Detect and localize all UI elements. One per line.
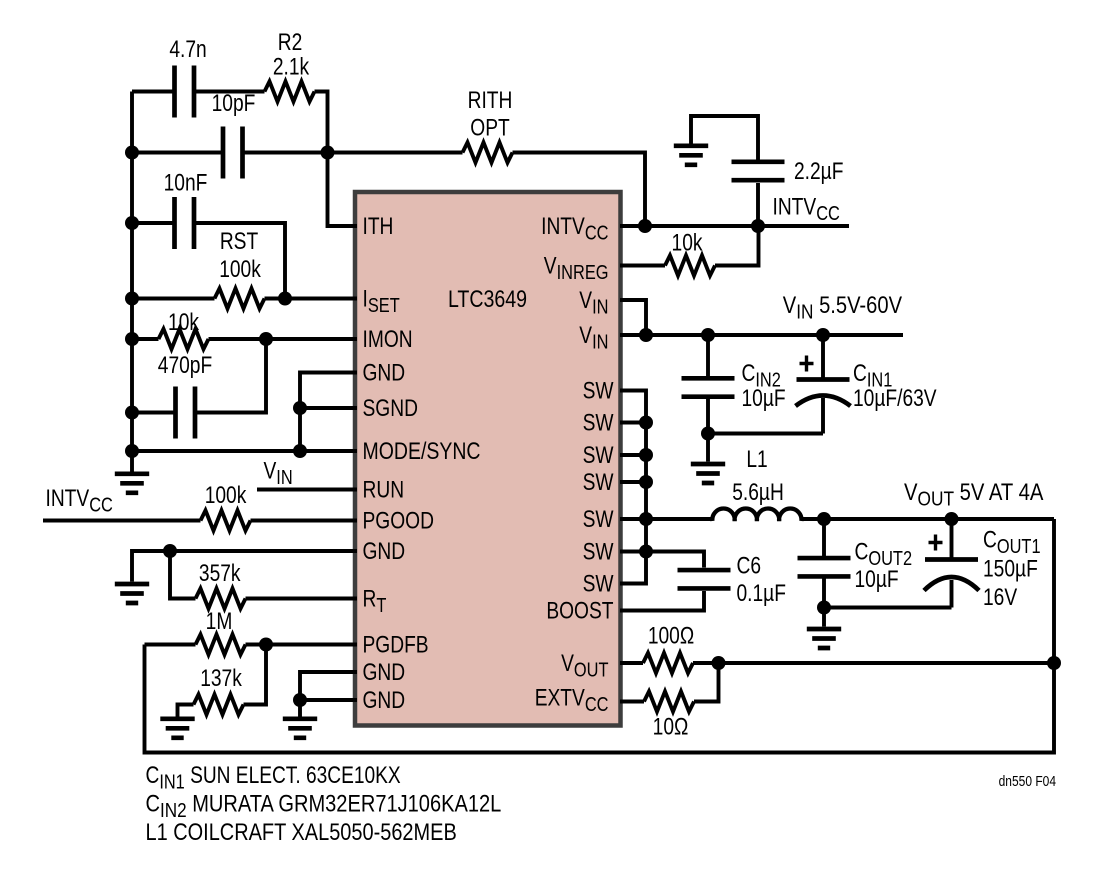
- wire SW2 stub: [620, 421, 646, 425]
- wire 100k to PGOOD pin: [251, 519, 358, 523]
- resistor 10k (VINREG): [665, 255, 715, 275]
- junction VOUT divider: [712, 656, 726, 670]
- plus sign CIN1: [800, 356, 814, 372]
- wire COUT2 to COUT1 bottom: [824, 606, 952, 610]
- junction bus IMON row: [125, 332, 139, 346]
- resistor 100k (PGOOD): [201, 510, 251, 530]
- wire SW5 stub: [620, 517, 646, 521]
- wire GND pin lower stub: [300, 700, 357, 717]
- wire 2.2uF bottom lead: [756, 183, 760, 226]
- svg-text:SW: SW: [583, 468, 614, 496]
- junction VIN/CIN1: [816, 328, 830, 342]
- wire RT branch vertical: [170, 551, 196, 599]
- svg-text:SW: SW: [583, 537, 614, 565]
- svg-text:2.2µF: 2.2µF: [794, 157, 843, 185]
- ground 2.2uF: [674, 146, 708, 165]
- junction SW4: [639, 475, 653, 489]
- svg-text:5.6µH: 5.6µH: [732, 478, 784, 506]
- junction bus ISET row: [125, 292, 139, 306]
- svg-text:VIN: VIN: [264, 456, 293, 488]
- svg-text:CIN1 SUN ELECT. 63CE10KX: CIN1 SUN ELECT. 63CE10KX: [146, 761, 402, 793]
- op-amp U1 LTC3649 regulator body: [355, 192, 621, 726]
- wire RST to ISET pin: [265, 297, 358, 301]
- wire 10k to IMON pin: [209, 337, 358, 341]
- capacitor 470pF: [176, 387, 196, 439]
- wire COUT2 gnd stem: [822, 608, 826, 627]
- junction ITH node: [321, 146, 335, 160]
- wire COUT1 top lead: [950, 519, 954, 558]
- wire 4.7n row left: [132, 90, 173, 94]
- resistor 1M: [196, 634, 246, 654]
- junction bus 10nF row: [125, 216, 139, 230]
- wire PGDFB node to 137k: [244, 645, 267, 705]
- svg-text:RITH: RITH: [468, 86, 513, 114]
- junction SW5: [639, 512, 653, 526]
- wire VINREG stub: [620, 264, 665, 268]
- wire VIN rail: [620, 333, 903, 337]
- svg-text:100k: 100k: [205, 481, 247, 509]
- wire SW4 stub: [620, 480, 646, 484]
- wire R2 down to 10pF node: [315, 92, 328, 153]
- capacitor 10pF: [223, 127, 243, 179]
- junction bus MODE row: [125, 444, 139, 458]
- svg-text:R2: R2: [278, 28, 303, 56]
- svg-text:SW: SW: [583, 441, 614, 469]
- junction MODE node: [293, 444, 307, 458]
- wire 10pF row left: [132, 151, 222, 155]
- wire 4.7n to R2: [196, 90, 265, 94]
- wire MODE node to GND pin: [300, 373, 357, 452]
- wire SW6 stub: [620, 550, 646, 554]
- svg-text:10µF: 10µF: [855, 565, 899, 593]
- junction bus 470pF row: [125, 406, 139, 420]
- svg-text:OPT: OPT: [470, 113, 509, 141]
- resistor 357k: [196, 588, 246, 608]
- svg-text:LTC3649: LTC3649: [448, 285, 527, 313]
- wire CIN1 top lead: [821, 335, 825, 378]
- wire 10k to INTVCC node: [715, 226, 759, 266]
- svg-text:SW: SW: [583, 505, 614, 533]
- svg-text:VIN 5.5V-60V: VIN 5.5V-60V: [783, 291, 903, 323]
- wire 10ohm to node: [694, 663, 719, 702]
- junction bus 10pF row: [125, 146, 139, 160]
- junction INTVCC/RITH: [638, 219, 652, 233]
- capacitor CIN2: [682, 378, 735, 396]
- junction CIN2 gnd node: [701, 427, 715, 441]
- wire EXTVCC pin stub: [620, 700, 644, 704]
- svg-text:RST: RST: [220, 227, 258, 255]
- wire COUT2 bottom lead: [822, 579, 826, 608]
- wire L1 to VOUT rail: [801, 517, 1054, 521]
- svg-text:SW: SW: [583, 569, 614, 597]
- ground left bus: [115, 474, 149, 493]
- svg-text:10µF: 10µF: [742, 384, 786, 412]
- wire CIN1 bottom lead: [821, 398, 825, 434]
- svg-text:GND: GND: [363, 686, 406, 714]
- junction SW3: [639, 448, 653, 462]
- svg-text:VOUT 5V AT 4A: VOUT 5V AT 4A: [904, 478, 1044, 510]
- svg-text:COUT1: COUT1: [983, 525, 1041, 557]
- wire CIN2 to CIN1 bottom: [708, 432, 823, 436]
- svg-text:0.1µF: 0.1µF: [737, 579, 786, 607]
- wire C6 to BOOST: [620, 591, 704, 611]
- svg-text:PGDFB: PGDFB: [363, 630, 429, 658]
- svg-text:100k: 100k: [219, 255, 261, 283]
- junction INTVCC/2.2uF: [751, 219, 765, 233]
- capacitor COUT2: [798, 558, 851, 576]
- wire COUT1 bottom lead: [950, 580, 954, 608]
- junction SW2: [639, 416, 653, 430]
- wire RUN stub: [257, 488, 357, 492]
- svg-text:IMON: IMON: [363, 325, 413, 353]
- wire MODE/SYNC row: [132, 449, 357, 453]
- svg-text:PGOOD: PGOOD: [363, 506, 434, 534]
- wire PGOOD left: [43, 519, 201, 523]
- svg-text:CIN2 MURATA GRM32ER71J106KA12L: CIN2 MURATA GRM32ER71J106KA12L: [146, 789, 502, 821]
- wire SW bus: [620, 391, 646, 584]
- wire VOUT pin stub: [620, 661, 643, 665]
- svg-text:100Ω: 100Ω: [648, 621, 694, 649]
- resistor 100ohm: [643, 653, 693, 673]
- svg-text:L1: L1: [746, 445, 767, 473]
- junction VOUT/COUT1: [945, 512, 959, 526]
- wire 10nF to ISET node: [196, 223, 285, 299]
- svg-text:357k: 357k: [199, 559, 241, 587]
- svg-text:dn550 F04: dn550 F04: [999, 773, 1057, 790]
- wire GND pin upper to lower: [300, 672, 357, 700]
- wire 1M to PGDFB pin: [246, 643, 358, 647]
- resistor 10ohm: [644, 691, 694, 711]
- wire ISET row left: [132, 297, 215, 301]
- svg-text:1M: 1M: [206, 607, 233, 635]
- resistor 10k (IMON): [159, 329, 209, 349]
- wire SW to L1: [646, 517, 713, 521]
- svg-text:16V: 16V: [983, 583, 1018, 611]
- wire RITH to INTVCC node: [513, 153, 646, 227]
- junction VIN/CIN2: [701, 328, 715, 342]
- svg-text:SW: SW: [583, 376, 614, 404]
- svg-text:10µF/63V: 10µF/63V: [853, 384, 937, 412]
- capacitor CIN1 polarized: [796, 380, 851, 407]
- svg-text:SW: SW: [583, 408, 614, 436]
- svg-text:RUN: RUN: [363, 475, 405, 503]
- junction COUT2 gnd node: [817, 601, 831, 615]
- wire SW3 stub: [620, 453, 646, 457]
- junction VIN pins: [639, 328, 653, 342]
- junction VOUT/COUT2: [817, 512, 831, 526]
- ground COUT2: [807, 629, 841, 648]
- wire 2.2uF top to ground: [691, 116, 758, 160]
- wire VIN pin1 jumper: [620, 300, 646, 335]
- junction GND/RT node: [163, 544, 177, 558]
- wire 470pF to IMON node: [197, 339, 266, 413]
- wire SGND stub: [300, 406, 357, 410]
- resistor RST 100k: [215, 288, 265, 308]
- svg-text:GND: GND: [363, 358, 406, 386]
- inductor L1 5.6uH: [712, 509, 801, 521]
- capacitor COUT1 polarized: [924, 560, 979, 591]
- junction ISET node dot: [278, 292, 292, 306]
- resistor RITH: [463, 142, 513, 162]
- junction PGDFB node: [259, 638, 273, 652]
- ground 137k: [160, 719, 194, 738]
- resistor R2 2.1k: [265, 81, 315, 101]
- ground CIN2: [691, 464, 725, 483]
- resistor 137k: [194, 694, 244, 714]
- wire CIN2 bottom lead: [706, 399, 710, 434]
- capacitor 2.2uF: [732, 162, 785, 180]
- wire SW6 to C6: [646, 552, 704, 568]
- capacitor 4.7n: [175, 66, 195, 118]
- wire ITH pin leg: [328, 153, 358, 227]
- svg-text:4.7n: 4.7n: [169, 35, 206, 63]
- svg-text:GND: GND: [363, 658, 406, 686]
- junction VOUT rail right: [1047, 656, 1061, 670]
- svg-text:10k: 10k: [168, 308, 199, 336]
- svg-text:10pF: 10pF: [212, 89, 256, 117]
- junction SW6: [639, 545, 653, 559]
- wire 100ohm to rail: [693, 661, 1054, 665]
- svg-text:INTVCC: INTVCC: [46, 484, 113, 516]
- wire CIN2 gnd stem: [706, 434, 710, 462]
- svg-text:SGND: SGND: [363, 394, 418, 422]
- svg-text:ITH: ITH: [363, 212, 394, 240]
- capacitor C6: [678, 570, 731, 588]
- svg-text:C6: C6: [737, 551, 762, 579]
- svg-text:10nF: 10nF: [164, 168, 208, 196]
- svg-text:L1 COILCRAFT XAL5050-562MEB: L1 COILCRAFT XAL5050-562MEB: [146, 818, 457, 846]
- svg-text:137k: 137k: [200, 664, 242, 692]
- wire INTVCC row: [620, 224, 849, 228]
- junction GND pins node: [293, 693, 307, 707]
- junction SGND node: [293, 401, 307, 415]
- svg-text:470pF: 470pF: [158, 351, 212, 379]
- svg-text:10k: 10k: [672, 228, 703, 256]
- svg-text:MODE/SYNC: MODE/SYNC: [363, 437, 481, 465]
- svg-text:BOOST: BOOST: [546, 596, 613, 624]
- wire GND row to ground: [132, 551, 357, 582]
- junction IMON node: [259, 332, 273, 346]
- svg-text:INTVCC: INTVCC: [773, 192, 840, 224]
- svg-text:150µF: 150µF: [983, 554, 1038, 582]
- wire 10nF row left: [132, 221, 173, 225]
- wire left bus vertical: [130, 92, 134, 472]
- wire 357k to RT pin: [246, 597, 358, 601]
- wire 470pF row left: [132, 411, 174, 415]
- svg-text:GND: GND: [363, 537, 406, 565]
- wire COUT2 top lead: [822, 519, 826, 557]
- wire CIN2 top lead: [706, 335, 710, 377]
- wire 10pF to RITH: [244, 151, 463, 155]
- svg-text:10Ω: 10Ω: [653, 712, 689, 740]
- wire PGDFB left leg: [145, 643, 196, 647]
- wire 137k to ground: [178, 705, 194, 717]
- wire bottom feedback rail: [145, 519, 1055, 753]
- svg-text:2.1k: 2.1k: [273, 52, 309, 80]
- plus sign COUT1: [929, 535, 943, 551]
- wire IMON row left: [132, 337, 159, 341]
- ground GND pins: [283, 719, 317, 738]
- capacitor 10nF: [175, 197, 195, 249]
- ground GND row: [115, 584, 149, 603]
